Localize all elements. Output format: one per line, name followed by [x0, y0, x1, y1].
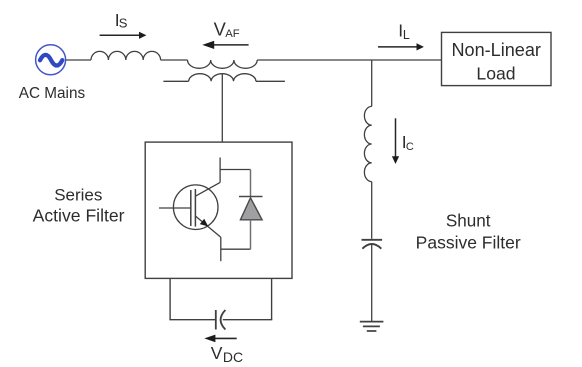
- box: non-linear load: [442, 32, 552, 85]
- wire C2 to ground: [371, 245, 373, 322]
- transformer T1 primary (top winding, bumps down): [188, 60, 258, 68]
- svg-text:L: L: [403, 28, 410, 42]
- wire dc-link right lead: [271, 278, 273, 319]
- label Non-Linear Load: [451, 40, 541, 84]
- wire source to L1: [66, 59, 91, 61]
- wire transformer to load: [257, 59, 441, 61]
- arrow IL (right): [378, 43, 424, 50]
- box: series active filter: [145, 142, 292, 278]
- svg-text:DC: DC: [223, 349, 243, 365]
- svg-text:V: V: [211, 343, 223, 363]
- svg-text:Active Filter: Active Filter: [33, 205, 125, 225]
- svg-text:C: C: [406, 141, 414, 153]
- arrow VDC (left): [204, 335, 236, 343]
- arrow IS (right): [100, 32, 147, 39]
- ground: [360, 322, 384, 331]
- svg-text:Non-Linear: Non-Linear: [451, 40, 541, 60]
- diode D1 (freewheeling): [239, 170, 263, 250]
- AC source V1: [36, 45, 66, 75]
- svg-text:AF: AF: [225, 28, 240, 40]
- svg-text:Series: Series: [54, 185, 102, 204]
- wire collector stub: [219, 158, 221, 183]
- label Shunt Passive Filter: [416, 212, 521, 253]
- capacitor C1 (dc link VDC): [216, 310, 226, 330]
- svg-text:S: S: [119, 15, 128, 30]
- capacitor C2 (shunt filter): [362, 240, 383, 249]
- wire collector to diode top: [220, 169, 250, 171]
- wire emitter to diode bottom: [221, 248, 251, 250]
- label VAF: [214, 19, 240, 40]
- label IC: [402, 132, 414, 153]
- inductor L2 (shunt filter, bumps left): [364, 106, 371, 181]
- arrow VAF (left): [202, 41, 248, 49]
- svg-text:Load: Load: [476, 64, 515, 84]
- transistor Q1 (IGBT): [159, 182, 221, 237]
- wire emitter stub: [220, 237, 222, 261]
- label VDC: [211, 343, 243, 365]
- wire secondary tap to filter box: [221, 74, 223, 142]
- label Series Active Filter: [33, 185, 125, 225]
- label IS: [115, 10, 128, 30]
- wire dc-link bottom right: [223, 319, 272, 321]
- wire L2 to C2: [371, 182, 373, 239]
- node: shunt junction wire down: [371, 60, 373, 106]
- wire L1 to transformer: [161, 59, 188, 61]
- svg-text:AC Mains: AC Mains: [19, 85, 86, 102]
- wire dc-link bottom left: [169, 319, 215, 321]
- inductor L1 (series source inductor): [91, 51, 161, 60]
- arrow IC (down): [392, 118, 399, 164]
- label IL: [398, 20, 410, 42]
- wire dc-link left lead: [169, 278, 171, 319]
- svg-text:Passive Filter: Passive Filter: [416, 233, 521, 253]
- svg-text:Shunt: Shunt: [446, 212, 491, 231]
- transformer T1 secondary (bottom winding, bumps up): [163, 74, 285, 82]
